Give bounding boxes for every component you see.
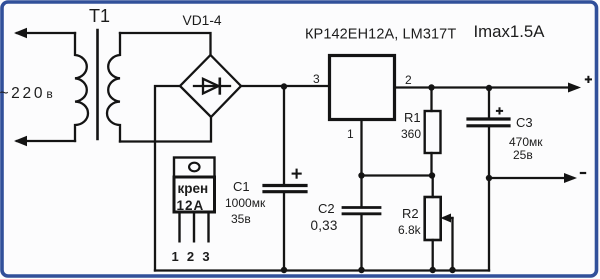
- label T1: [89, 6, 110, 26]
- label minus output: [580, 172, 586, 174]
- svg-text:6.8k: 6.8k: [398, 223, 422, 237]
- svg-text:Imax1.5A: Imax1.5A: [474, 22, 546, 41]
- svg-text:крен: крен: [178, 181, 209, 196]
- svg-text:123: 123: [172, 249, 218, 264]
- label KP142EH12A, LM317T: [305, 27, 456, 43]
- svg-text:1: 1: [347, 127, 354, 141]
- wire bridge right corner to regulator pin 3: [241, 85, 328, 87]
- svg-text:35в: 35в: [231, 212, 251, 226]
- junction node C1 bottom: [281, 267, 287, 273]
- arrowhead AC top: [14, 28, 27, 38]
- label 35в: [231, 212, 251, 226]
- label plus C3: [496, 107, 503, 114]
- junction node R2 bottom: [430, 267, 436, 273]
- arrowhead R2 wiper: [441, 214, 452, 223]
- label plus output: [585, 76, 592, 83]
- svg-text:VD1-4: VD1-4: [183, 13, 222, 28]
- wire bridge left corner to bottom rail: [155, 86, 180, 271]
- svg-text:C1: C1: [233, 179, 250, 194]
- label pin 2: [405, 73, 412, 87]
- wire secondary bottom to bridge: [120, 117, 211, 142]
- svg-text:25в: 25в: [513, 148, 533, 162]
- wire secondary top to bridge: [120, 33, 211, 55]
- capacitor C3: [468, 88, 509, 271]
- capacitor C2: [343, 176, 380, 271]
- junction node C1 top: [281, 83, 287, 89]
- wire AC top: [17, 32, 75, 34]
- label pin 1: [347, 127, 354, 141]
- label 470мк: [509, 135, 543, 149]
- label C3: [516, 115, 533, 130]
- label plus C1: [292, 169, 302, 179]
- label pin 3: [313, 72, 320, 86]
- arrowhead AC bottom: [14, 136, 27, 146]
- label R2: [402, 206, 419, 221]
- resistor R2 (trimmer): [425, 176, 441, 271]
- resistor R1: [425, 88, 441, 176]
- label pins 1 2 3: [172, 249, 218, 264]
- svg-text:R2: R2: [402, 206, 419, 221]
- junction node pin1-C2: [358, 172, 364, 178]
- svg-text:3: 3: [313, 72, 320, 86]
- transformer T1: [75, 30, 120, 142]
- label Imax1.5A: [474, 22, 546, 41]
- wire minus output: [489, 177, 573, 179]
- arrowhead minus output: [564, 173, 577, 183]
- regulator U1 KP142EH12A / LM317T: [330, 56, 395, 120]
- R2 wiper arm: [444, 218, 453, 271]
- svg-text:C3: C3: [516, 115, 533, 130]
- junction node C2 bottom: [358, 267, 364, 273]
- bridge rectifier VD1-4: [180, 55, 241, 117]
- svg-text:T1: T1: [89, 6, 110, 26]
- label C2: [318, 201, 335, 216]
- wire regulator pin 1 down: [362, 121, 432, 176]
- svg-text:~220в: ~220в: [0, 85, 53, 102]
- svg-text:360: 360: [401, 127, 421, 141]
- label крен: [178, 181, 209, 196]
- label 12А: [177, 198, 205, 213]
- label C1: [233, 179, 250, 194]
- label ~220в: [0, 85, 53, 102]
- junction node C3-minus: [486, 175, 492, 181]
- label R1: [404, 110, 421, 125]
- junction node R1-R2: [429, 172, 435, 178]
- svg-text:12А: 12А: [177, 198, 205, 213]
- svg-text:КР142ЕН12А, LM317T: КР142ЕН12А, LM317T: [305, 27, 456, 43]
- label 360: [401, 127, 421, 141]
- label 1000мк: [225, 196, 266, 210]
- label VD1-4: [183, 13, 222, 28]
- svg-text:C2: C2: [318, 201, 335, 216]
- label 0,33: [311, 218, 338, 233]
- arrowhead plus output: [568, 83, 581, 93]
- junction node R1 top: [428, 84, 434, 90]
- label 6.8k: [398, 223, 422, 237]
- svg-text:R1: R1: [404, 110, 421, 125]
- label 25в: [513, 148, 533, 162]
- regulator KREN12A package drawing: [174, 158, 215, 243]
- wire AC bottom: [17, 140, 75, 142]
- junction node wiper bottom: [449, 267, 455, 273]
- svg-text:2: 2: [405, 73, 412, 87]
- svg-text:1000мк: 1000мк: [225, 196, 266, 210]
- svg-text:0,33: 0,33: [311, 218, 338, 233]
- svg-text:470мк: 470мк: [509, 135, 543, 149]
- wire regulator pin 2 output: [396, 86, 577, 88]
- junction node C3 top: [486, 85, 492, 91]
- wire bottom rail: [155, 269, 489, 271]
- capacitor C1: [264, 87, 306, 271]
